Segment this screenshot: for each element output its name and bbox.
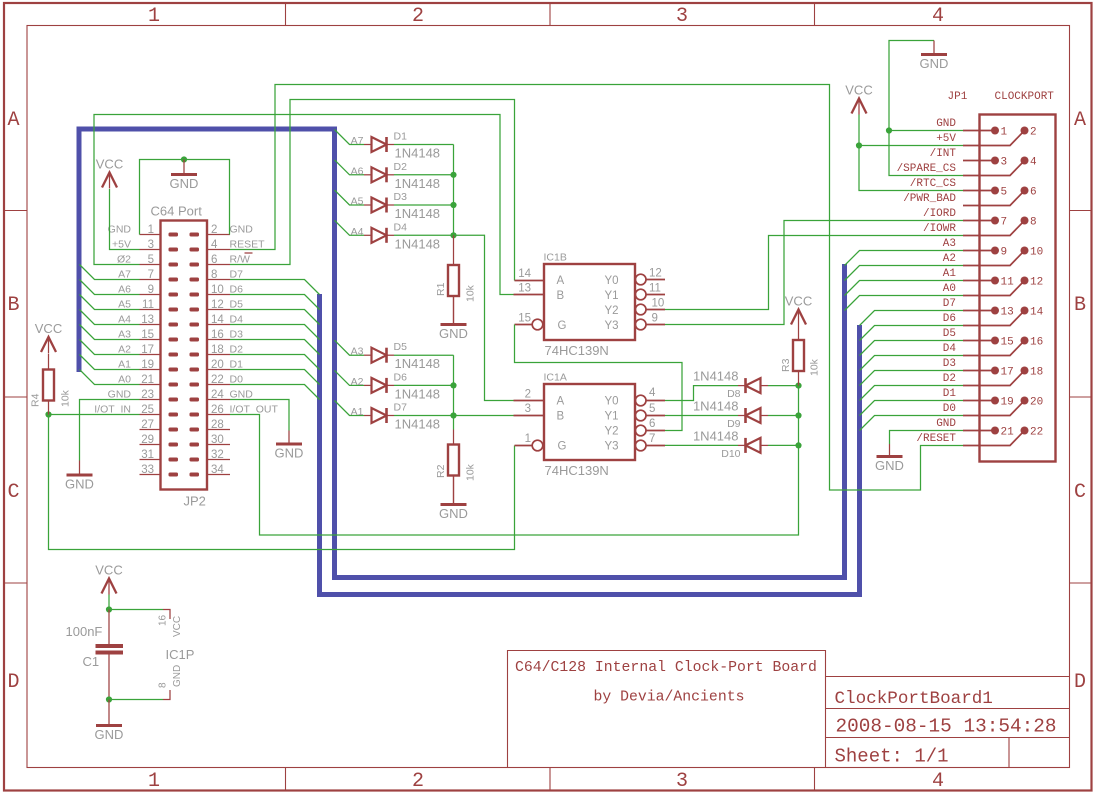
svg-text:9: 9 — [1001, 247, 1008, 259]
svg-text:D3: D3 — [943, 358, 956, 370]
wire IC1B Y2 pin10 to JP1 /IOWR — [665, 236, 963, 310]
ground symbol at JP1 pin21 — [889, 444, 891, 457]
svg-text:13: 13 — [1001, 307, 1014, 319]
power symbol VCC at R3 — [791, 310, 806, 325]
svg-text:17: 17 — [1001, 367, 1014, 379]
svg-text:9: 9 — [148, 284, 154, 296]
wire GND net to JP1 pin1 and pin4 /SPARE_CS — [889, 41, 963, 176]
svg-text:8: 8 — [158, 682, 169, 688]
svg-text:D: D — [7, 671, 19, 694]
wire diode D6 cathode to junction rail — [394, 384, 454, 386]
svg-text:GND: GND — [108, 389, 132, 401]
svg-text:GND: GND — [230, 224, 254, 236]
svg-text:/INT: /INT — [930, 148, 957, 160]
svg-text:A0: A0 — [943, 283, 956, 295]
junction GND net above JP2 — [181, 156, 187, 162]
resistor R2 — [453, 430, 455, 445]
svg-text:29: 29 — [141, 434, 154, 446]
connector JP2 C64 Port body — [161, 221, 208, 490]
connector JP2 right pin names — [230, 224, 279, 416]
wire diode D3 cathode to junction rail — [394, 204, 454, 206]
IC1A output stubs — [647, 400, 666, 402]
svg-text:11: 11 — [1001, 277, 1015, 289]
svg-text:31: 31 — [141, 449, 154, 461]
connector JP2 pin stubs left — [140, 235, 161, 475]
svg-text:1N4148: 1N4148 — [395, 176, 441, 191]
svg-text:5: 5 — [1001, 187, 1008, 199]
IC1P power pin 16 VCC — [163, 610, 170, 620]
svg-text:Y3: Y3 — [605, 320, 619, 332]
svg-text:D6: D6 — [394, 371, 408, 383]
svg-text:16: 16 — [1030, 337, 1043, 349]
svg-text:6: 6 — [1030, 187, 1037, 199]
svg-text:9: 9 — [652, 313, 658, 325]
svg-text:GND: GND — [936, 118, 956, 130]
svg-text:3: 3 — [1001, 157, 1008, 169]
svg-text:CLOCKPORT: CLOCKPORT — [995, 91, 1055, 103]
svg-text:18: 18 — [1030, 367, 1043, 379]
svg-text:IC1B: IC1B — [544, 252, 567, 264]
svg-text:D5: D5 — [394, 341, 408, 353]
svg-text:14: 14 — [211, 314, 224, 326]
svg-text:IC1A: IC1A — [544, 372, 567, 384]
junction D8 rail — [795, 383, 801, 389]
svg-text:D7: D7 — [943, 298, 956, 310]
svg-text:D1: D1 — [943, 388, 957, 400]
wire IC1B G pin15 from IC1A Y2 pin6 — [515, 325, 683, 431]
svg-text:8: 8 — [211, 269, 217, 281]
svg-text:A6: A6 — [351, 165, 364, 177]
ground symbol right of JP2 pin24 — [288, 431, 290, 445]
svg-text:A2: A2 — [943, 253, 956, 265]
diode D1 1N4148 — [372, 137, 387, 152]
svg-text:C: C — [1074, 481, 1086, 504]
svg-text:A: A — [1074, 109, 1086, 132]
ground symbol above JP2 — [183, 160, 185, 175]
svg-text:4: 4 — [932, 5, 944, 28]
wire GND at C1 bottom to IC1P pin8 — [109, 699, 163, 701]
frame row dividers right — [1070, 210, 1092, 212]
svg-text:20: 20 — [1030, 397, 1043, 409]
svg-text:D2: D2 — [394, 161, 408, 173]
svg-text:A7: A7 — [118, 269, 131, 281]
svg-text:1: 1 — [1001, 127, 1008, 139]
power symbol VCC at JP2 pin 3 — [102, 173, 117, 188]
svg-text:R4: R4 — [30, 393, 42, 407]
svg-text:5: 5 — [148, 254, 154, 266]
junction GND at C1 bottom — [106, 696, 112, 702]
wire IC1A Y1 pin5 to diode D9 — [665, 415, 738, 417]
svg-text:A2: A2 — [118, 344, 131, 356]
svg-text:A: A — [7, 109, 19, 132]
svg-text:1N4148: 1N4148 — [395, 386, 441, 401]
svg-text:GND: GND — [230, 389, 254, 401]
svg-text:A1: A1 — [118, 359, 131, 371]
connector JP1 pins — [963, 127, 1044, 446]
connector JP2 pin pads — [169, 233, 200, 477]
svg-text:A3: A3 — [943, 238, 956, 250]
IC1A pin 2 stub — [514, 400, 545, 402]
svg-text:74HC139N: 74HC139N — [545, 463, 609, 478]
svg-text:14: 14 — [1030, 307, 1044, 319]
svg-text:22: 22 — [211, 374, 224, 386]
wire diode D9 anode to pullup rail — [768, 415, 799, 417]
bus A (address lines A7-A0) — [79, 129, 845, 578]
svg-text:VCC: VCC — [172, 616, 183, 637]
svg-text:3: 3 — [676, 770, 688, 793]
svg-text:D2: D2 — [943, 373, 956, 385]
wire net R/W: JP2 pin6 to IC1B pin14 A — [230, 100, 515, 281]
wire GND net pin 23 down to ground — [80, 400, 140, 461]
svg-text:ClockPortBoard1: ClockPortBoard1 — [835, 689, 993, 709]
svg-text:GND: GND — [936, 418, 956, 430]
svg-text:1N4148: 1N4148 — [395, 206, 441, 221]
ground symbol top right — [933, 41, 935, 55]
svg-text:GND: GND — [108, 224, 132, 236]
svg-text:RESET: RESET — [230, 239, 266, 251]
svg-text:A3: A3 — [118, 329, 131, 341]
svg-text:22: 22 — [1030, 427, 1043, 439]
wire VCC to C1 and IC1P pin16 — [108, 595, 110, 610]
svg-text:11: 11 — [649, 283, 661, 295]
resistor R1 — [453, 235, 455, 265]
svg-text:Y0: Y0 — [605, 275, 619, 287]
svg-text:D6: D6 — [230, 284, 244, 296]
svg-text:2: 2 — [412, 5, 424, 28]
svg-text:D7: D7 — [230, 269, 244, 281]
svg-text:D5: D5 — [230, 299, 244, 311]
svg-text:1N4148: 1N4148 — [395, 146, 441, 161]
junction D6 rail — [450, 382, 456, 388]
wires A3-A0 rippers from bus A right to JP1 — [845, 251, 964, 311]
wire I/OT_IN net: JP2 pin25, R4, to IC1A pin1 G — [49, 415, 515, 550]
IC1B pin 15 G with bubble — [515, 324, 532, 326]
junction D3 rail — [450, 202, 456, 208]
svg-text:GND: GND — [95, 727, 124, 742]
svg-text:D0: D0 — [230, 374, 244, 386]
svg-text:R2: R2 — [435, 464, 447, 478]
svg-text:Y0: Y0 — [605, 396, 619, 408]
svg-text:2: 2 — [1030, 127, 1037, 139]
svg-text:GND: GND — [172, 665, 183, 687]
power symbol VCC at JP1 — [852, 99, 867, 114]
wire diode D8 anode to pullup rail — [768, 385, 799, 387]
svg-text:B: B — [1074, 294, 1086, 317]
svg-text:2008-08-15 13:54:28: 2008-08-15 13:54:28 — [836, 716, 1057, 738]
wire net A1 ripper from bus A to diode D7 — [335, 401, 365, 416]
diode D2 1N4148 — [372, 167, 387, 182]
svg-text:Y3: Y3 — [605, 441, 619, 453]
title block right box rows — [826, 677, 1070, 768]
svg-text:20: 20 — [211, 359, 224, 371]
svg-text:23: 23 — [141, 389, 154, 401]
svg-text:4: 4 — [932, 770, 944, 793]
wire GND net JP1 pin21 — [890, 431, 964, 445]
junction I/OT_IN at R4 — [45, 411, 51, 417]
resistor R4 — [48, 354, 50, 370]
IC1A output bubbles pins 4 5 6 7 — [635, 395, 646, 406]
svg-text:Y2: Y2 — [605, 305, 619, 317]
svg-text:+5V: +5V — [112, 239, 131, 251]
svg-text:14: 14 — [518, 268, 531, 280]
wire IC1A Y0 pin4 to diode D8 — [665, 386, 738, 401]
svg-text:/SPARE_CS: /SPARE_CS — [897, 163, 957, 175]
wire net 02 phase clock: JP2 pin5 to IC1B pin13 B — [94, 115, 514, 295]
svg-text:7: 7 — [148, 269, 154, 281]
svg-text:D0: D0 — [943, 403, 956, 415]
svg-text:B: B — [7, 294, 19, 317]
IC1A pin 1 G with bubble — [515, 445, 532, 447]
svg-text:4: 4 — [1030, 157, 1037, 169]
svg-text:C1: C1 — [83, 654, 100, 669]
svg-text:B: B — [557, 290, 565, 302]
wire diode D7 cathode to junction rail — [394, 415, 454, 417]
svg-text:A: A — [557, 275, 565, 287]
ground symbol below R2 — [453, 476, 455, 505]
svg-text:11: 11 — [142, 299, 154, 311]
svg-text:+5V: +5V — [936, 133, 956, 145]
wire D7 junction to IC1A pin3 B — [454, 415, 514, 417]
wire diode D5 cathode to junction rail — [394, 354, 454, 356]
svg-text:B: B — [557, 411, 565, 423]
junction D7 rail — [450, 412, 456, 418]
IC1B output stubs — [647, 279, 666, 281]
svg-text:3: 3 — [676, 5, 688, 28]
wire net A7 ripper from bus A to diode D1 — [335, 130, 365, 145]
svg-text:D4: D4 — [943, 343, 957, 355]
svg-text:1: 1 — [148, 224, 154, 236]
svg-text:10k: 10k — [465, 463, 477, 481]
svg-text:28: 28 — [211, 419, 224, 431]
wire cathode rail D5-D7 down to R2 — [453, 355, 455, 429]
svg-text:A4: A4 — [118, 314, 131, 326]
svg-text:A2: A2 — [351, 376, 364, 388]
svg-text:33: 33 — [141, 464, 154, 476]
svg-text:13: 13 — [518, 283, 531, 295]
svg-text:A1: A1 — [943, 268, 957, 280]
svg-text:7: 7 — [1001, 217, 1008, 229]
power symbol VCC at C1 — [102, 579, 117, 594]
svg-text:JP1: JP1 — [948, 91, 968, 103]
wire cathode rail D1-D4 down to R1 — [453, 145, 455, 236]
svg-text:D6: D6 — [943, 313, 956, 325]
svg-text:1: 1 — [148, 770, 160, 793]
svg-text:1N4148: 1N4148 — [693, 399, 739, 414]
svg-text:8: 8 — [1030, 217, 1037, 229]
wire +5V net pin 3 to VCC — [110, 189, 140, 250]
svg-text:A5: A5 — [118, 299, 131, 311]
svg-text:34: 34 — [211, 464, 224, 476]
svg-text:10: 10 — [652, 298, 665, 310]
svg-text:32: 32 — [211, 449, 224, 461]
svg-text:C: C — [7, 481, 19, 504]
svg-text:Y1: Y1 — [605, 411, 619, 423]
frame row dividers left — [4, 210, 27, 212]
IC1B pin names inside — [557, 275, 619, 332]
connector JP2 pin stubs right — [207, 235, 230, 475]
svg-text:1N4148: 1N4148 — [395, 236, 441, 251]
wire diode D1 cathode to junction rail — [394, 144, 454, 146]
svg-text:26: 26 — [211, 404, 224, 416]
wire net A4 ripper from bus A to diode D4 — [335, 220, 365, 235]
diode D4 1N4148 — [372, 228, 387, 243]
diode D3 1N4148 — [372, 198, 387, 213]
svg-text:R1: R1 — [435, 282, 447, 296]
diode D10 1N4148 — [746, 438, 761, 453]
svg-text:A: A — [557, 396, 565, 408]
title block left box — [508, 651, 826, 768]
svg-text:VCC: VCC — [96, 157, 123, 172]
svg-text:I/OT_OUT: I/OT_OUT — [230, 404, 279, 416]
svg-text:7: 7 — [649, 433, 655, 445]
svg-text:10k: 10k — [809, 358, 821, 376]
wire diode D10 anode to pullup rail — [768, 444, 799, 446]
svg-text:25: 25 — [141, 404, 154, 416]
frame column dividers top — [285, 3, 287, 26]
svg-text:A4: A4 — [351, 226, 364, 238]
svg-text:19: 19 — [141, 359, 154, 371]
svg-text:15: 15 — [1001, 337, 1014, 349]
wire GND net pins 1-2 loop — [140, 160, 230, 235]
op IC1A 74HC139N decoder body — [544, 384, 635, 460]
svg-text:D3: D3 — [230, 329, 244, 341]
junction D10 rail — [795, 442, 801, 448]
wire net A5 ripper from bus A to diode D3 — [335, 190, 365, 205]
svg-text:17: 17 — [141, 344, 154, 356]
junction VCC at JP1 pin2 — [856, 142, 862, 148]
wire VCC net to JP1 pin2 and pin5 /RTC_CS — [859, 115, 963, 191]
svg-text:C64/C128 Internal Clock-Port B: C64/C128 Internal Clock-Port Board — [515, 660, 817, 676]
connector JP2 even pin numbers — [211, 224, 224, 476]
svg-text:GND: GND — [65, 477, 94, 492]
op IC1B 74HC139N decoder body — [544, 264, 635, 340]
svg-text:D7: D7 — [394, 402, 408, 414]
wire I/OT_OUT net: JP2 pin26 to diode D8-D10 pullup rail — [230, 415, 799, 536]
svg-text:GND: GND — [920, 56, 949, 71]
svg-text:G: G — [558, 441, 567, 453]
svg-text:15: 15 — [141, 329, 154, 341]
svg-text:I/OT_IN: I/OT_IN — [94, 404, 131, 416]
svg-text:D1: D1 — [230, 359, 244, 371]
svg-text:D2: D2 — [230, 344, 244, 356]
svg-text:GND: GND — [875, 458, 904, 473]
diode D8 1N4148 — [746, 378, 761, 393]
svg-text:D4: D4 — [394, 221, 408, 233]
ground symbol below R1 — [453, 296, 455, 325]
svg-text:6: 6 — [211, 254, 217, 266]
svg-text:Ø2: Ø2 — [117, 254, 131, 266]
connector JP2 odd pin numbers — [141, 224, 154, 476]
junction D9 rail — [795, 412, 801, 418]
svg-text:A3: A3 — [351, 346, 364, 358]
svg-text:4: 4 — [649, 387, 656, 399]
wire net A3 ripper from bus A to diode D5 — [335, 340, 365, 355]
svg-text:5: 5 — [649, 403, 655, 415]
svg-text:by Devia/Ancients: by Devia/Ancients — [594, 690, 745, 706]
svg-text:/RESET: /RESET — [916, 433, 956, 445]
svg-text:3: 3 — [148, 239, 154, 251]
wire IC1B Y3 pin9 to JP1 /IORD — [665, 221, 963, 325]
connector JP2 left pin names — [94, 224, 131, 416]
svg-text:30: 30 — [211, 434, 224, 446]
svg-text:10k: 10k — [60, 389, 72, 407]
svg-text:1N4148: 1N4148 — [693, 428, 739, 443]
IC1A pin 3 stub — [514, 415, 545, 417]
svg-text:10: 10 — [211, 284, 224, 296]
IC1B pin 13 stub — [514, 294, 545, 296]
svg-text:12: 12 — [1030, 277, 1043, 289]
svg-text:Y2: Y2 — [605, 426, 619, 438]
IC1B output bubbles pins 12 11 10 9 — [635, 274, 646, 285]
connector JP1 net labels — [897, 118, 957, 445]
frame column dividers bottom — [285, 768, 287, 791]
junction D2 rail — [450, 172, 456, 178]
svg-text:2: 2 — [412, 770, 424, 793]
svg-text:12: 12 — [211, 299, 224, 311]
svg-text:12: 12 — [649, 268, 662, 280]
svg-text:D10: D10 — [721, 448, 740, 460]
svg-text:G: G — [558, 320, 567, 332]
diode D6 1N4148 — [372, 378, 387, 393]
wire net RESET: JP2 pin4 to JP1 pin22 /RESET — [230, 85, 963, 491]
capacitor C1 100nF — [108, 610, 110, 645]
svg-text:10: 10 — [1030, 247, 1043, 259]
svg-text:24: 24 — [211, 389, 224, 401]
wire GND net pin 24 down to ground — [230, 400, 289, 431]
power symbol VCC at R4 — [41, 337, 56, 352]
wire net A6 ripper from bus A to diode D2 — [335, 160, 365, 175]
svg-text:A5: A5 — [351, 196, 364, 208]
diode D9 1N4148 — [746, 408, 761, 423]
connector JP1 CLOCKPORT body — [980, 115, 1056, 462]
svg-text:1N4148: 1N4148 — [395, 356, 441, 371]
IC1B pin 14 stub — [515, 280, 545, 282]
wires D7-D0 rippers from bus B right to JP1 — [860, 311, 964, 431]
svg-text:GND: GND — [439, 326, 468, 341]
svg-text:27: 27 — [141, 419, 154, 431]
diode D5 1N4148 — [372, 348, 387, 363]
svg-text:/RTC_CS: /RTC_CS — [910, 178, 957, 190]
svg-text:18: 18 — [211, 344, 224, 356]
junction VCC at C1 top — [106, 606, 112, 612]
svg-text:Y1: Y1 — [605, 290, 619, 302]
svg-text:21: 21 — [141, 374, 154, 386]
svg-text:Sheet: 1/1: Sheet: 1/1 — [835, 746, 949, 768]
svg-text:6: 6 — [649, 418, 655, 430]
svg-text:4: 4 — [211, 239, 218, 251]
svg-text:JP2: JP2 — [184, 494, 206, 509]
bus B (data lines D7-D0) — [320, 294, 860, 595]
svg-text:/IORD: /IORD — [923, 208, 956, 220]
wire diode D4 cathode to junction rail — [394, 234, 454, 236]
svg-text:VCC: VCC — [845, 83, 872, 98]
junction GND at JP1 pin1 — [886, 127, 892, 133]
wire net A2 ripper from bus A to diode D6 — [335, 370, 365, 385]
svg-text:15: 15 — [518, 313, 531, 325]
svg-text:A0: A0 — [118, 374, 131, 386]
svg-text:GND: GND — [170, 176, 199, 191]
svg-text:74HC139N: 74HC139N — [545, 343, 609, 358]
junction D4 rail — [450, 232, 456, 238]
svg-text:IC1P: IC1P — [166, 647, 195, 662]
svg-text:VCC: VCC — [95, 563, 122, 578]
svg-text:D4: D4 — [230, 314, 244, 326]
svg-text:GND: GND — [439, 506, 468, 521]
svg-text:R3: R3 — [780, 358, 792, 372]
wires D7-D0 from JP2 to bus B with rippers — [230, 280, 320, 400]
svg-text:A6: A6 — [118, 284, 131, 296]
svg-text:VCC: VCC — [785, 294, 812, 309]
